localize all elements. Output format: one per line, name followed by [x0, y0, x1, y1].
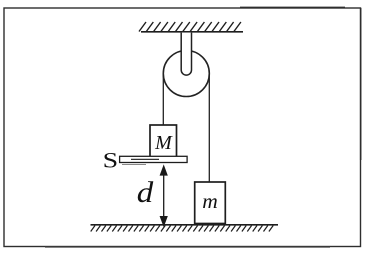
ground line — [91, 224, 279, 226]
wire: right string pulley to block m — [208, 74, 210, 183]
ground hatching — [91, 226, 274, 232]
block m — [195, 182, 226, 224]
pulley bracket — [181, 33, 191, 76]
svg-text:m: m — [202, 189, 218, 213]
pulley wheel — [163, 51, 209, 97]
svg-text:S: S — [103, 148, 119, 173]
block M — [150, 125, 177, 157]
wire: left string pulley to block M — [162, 74, 164, 126]
ceiling line — [141, 31, 243, 33]
svg-text:M: M — [154, 132, 173, 154]
svg-text:d: d — [137, 176, 154, 209]
ceiling hatching — [139, 22, 241, 32]
d arrow — [161, 166, 167, 225]
shelf S — [120, 156, 188, 162]
